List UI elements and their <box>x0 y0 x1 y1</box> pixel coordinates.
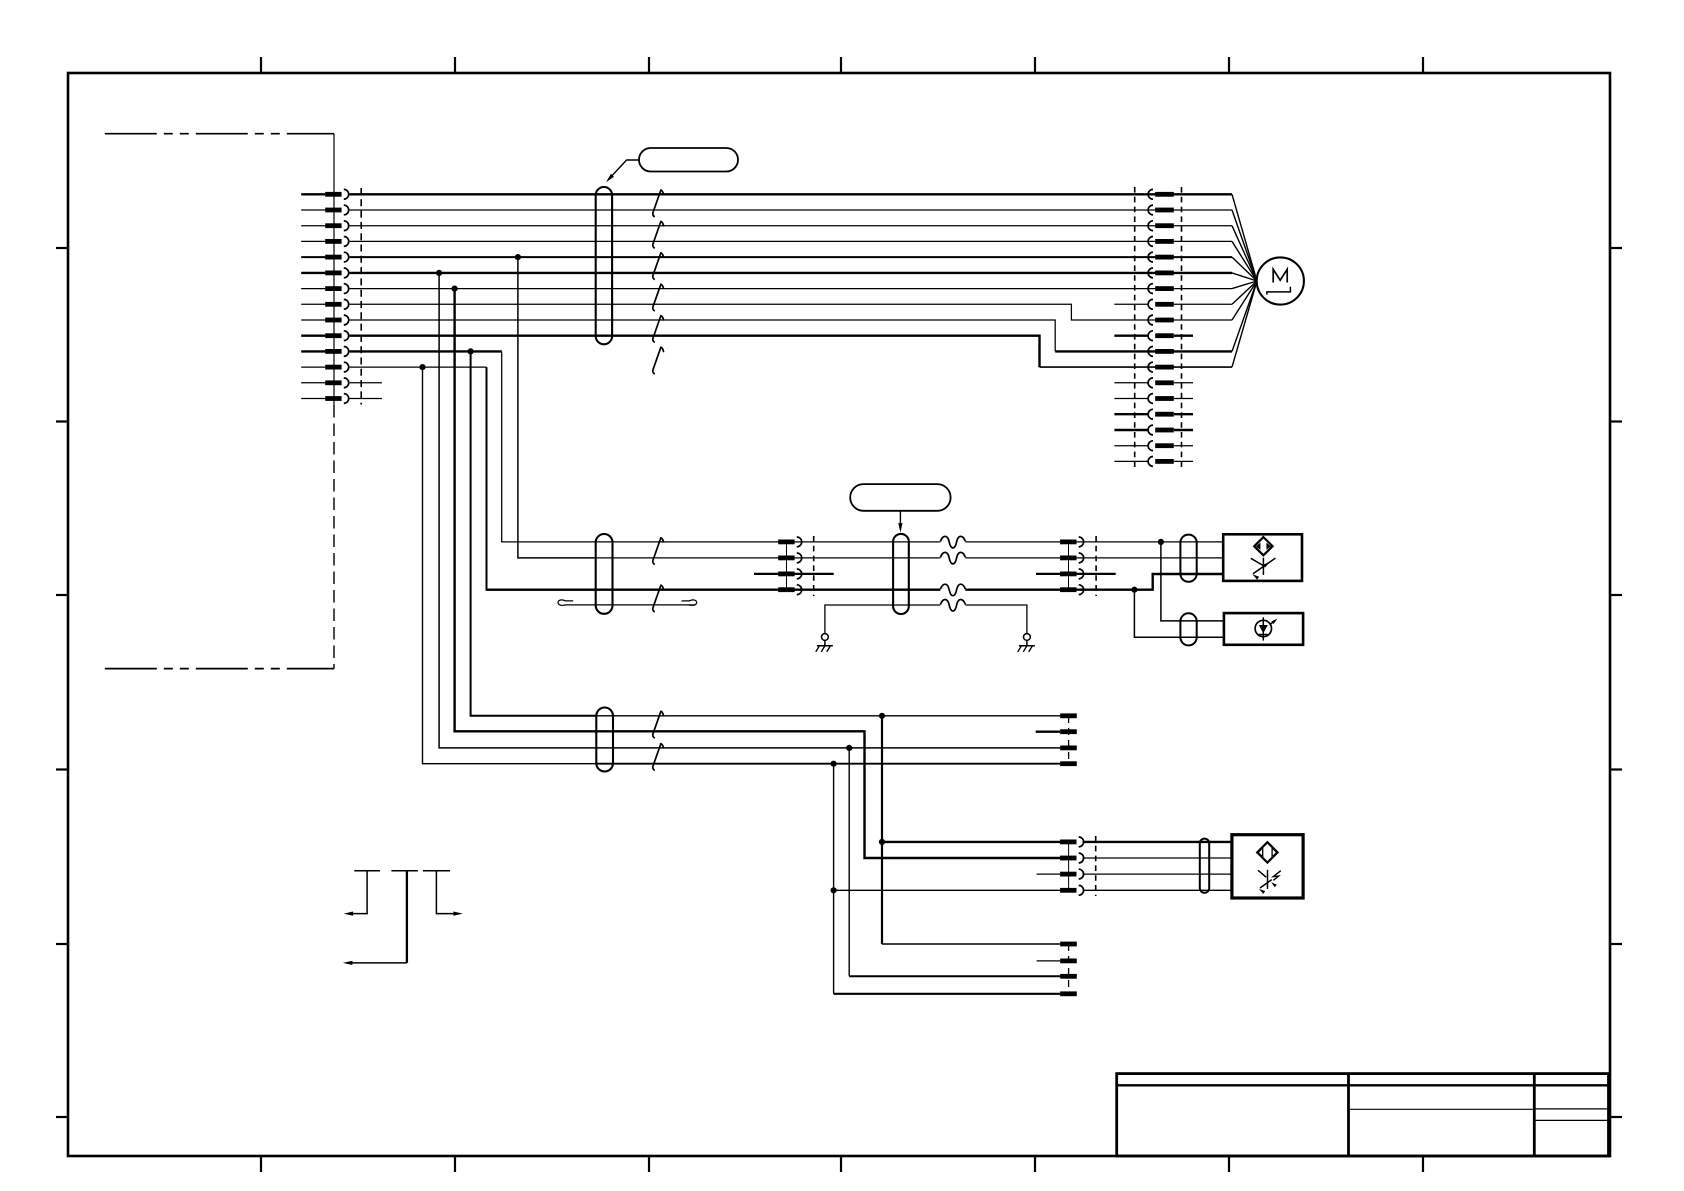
ferrite core sensor2 <box>1180 613 1196 645</box>
wire row12 <box>350 366 487 368</box>
terminal V2 stub <box>1037 960 1061 962</box>
wire to sensor2 pin2 <box>1134 590 1224 638</box>
drop wire to B4 <box>423 367 597 764</box>
frame fold ticks left <box>56 247 68 249</box>
sensor3 beam + flash symbol <box>1267 870 1269 889</box>
title block right column rows <box>1534 1108 1608 1110</box>
shield drain wire with hooks <box>566 604 695 606</box>
CN1 pin 3 <box>301 225 325 227</box>
motor M1 circle <box>1257 257 1304 304</box>
ferrite core sensor3 <box>1200 839 1209 893</box>
wire row8 steps down to CN2 pin9 <box>350 304 1148 320</box>
wires CN5 to sensor3 <box>1083 841 1232 843</box>
wire row10 steps down to CN2 pin12 <box>350 336 1040 367</box>
CN2 pin 15 <box>1148 409 1153 419</box>
wire row7 <box>350 288 1232 290</box>
junction dot M4 <box>1131 587 1137 593</box>
wire M2 <box>596 557 941 559</box>
CN5 pin3 stub <box>1037 873 1061 875</box>
junction dot W4 <box>831 887 837 893</box>
CN2 pin 10 <box>1148 331 1153 341</box>
junction dot B1 <box>879 713 885 719</box>
earth ground left <box>822 634 829 641</box>
branch B1 down to sensor3 and lower terminals <box>881 716 883 944</box>
junction dot B4 <box>831 761 837 767</box>
sensor1 beam arrows symbol <box>1262 558 1264 575</box>
junction dot row7 <box>452 286 458 292</box>
CN2 pin 6 <box>1148 268 1153 278</box>
wire row6 <box>350 272 1232 274</box>
wire row5 <box>350 256 1232 258</box>
wire row11 <box>350 350 502 352</box>
CN5 pin 2 <box>1060 856 1076 861</box>
CN2 pin 17 stubs <box>1114 445 1148 447</box>
shield capsule (middle cable, sensor side) <box>893 534 909 614</box>
CN5 pin 3 <box>1060 872 1076 877</box>
sensor1 diamond symbol <box>1254 537 1272 555</box>
CN1 pin 13 <box>301 382 325 384</box>
CN3 pin 3 <box>778 572 794 577</box>
CN1 pin 12 <box>301 366 325 368</box>
terminal V3 <box>1060 974 1077 979</box>
interruption squiggles middle cable <box>940 536 965 548</box>
CN1 pin 7 <box>301 288 325 290</box>
CN1 pin 4 <box>301 240 325 242</box>
CN1 pin 8 <box>301 303 325 305</box>
CN2 pin 13 <box>1148 378 1153 388</box>
CN5 dashed line <box>1095 836 1097 896</box>
drop wire to B3 <box>439 273 596 748</box>
off-page arrow 3 <box>423 870 450 872</box>
CN4 shield through-bar <box>1036 573 1116 575</box>
CN2 pin 14 <box>1148 394 1153 404</box>
junction dot B3 <box>846 745 852 751</box>
connector CN1 dashed cable-side line <box>360 188 362 405</box>
device boundary right edge upper (solid) <box>333 134 335 405</box>
sensor box 1 (photoelectric) <box>1223 534 1302 581</box>
CN2 pin 1 <box>1148 189 1153 199</box>
CN2 pin 16 stubs <box>1114 429 1148 431</box>
CN4 pin 4 <box>1060 587 1076 592</box>
junction dot M1 <box>1158 539 1164 545</box>
motor underline bracket <box>1267 287 1291 295</box>
off-page arrow 2 <box>391 870 418 872</box>
CN2 pin8 stub and motor wire <box>1114 303 1148 305</box>
CN3 pin 4 <box>778 587 794 592</box>
CN2 pin 5 <box>1148 252 1153 262</box>
conductor-count slashes (top cable) <box>653 190 664 217</box>
device boundary bottom edge <box>105 668 334 670</box>
ground bus of middle cable shield <box>825 605 941 634</box>
CN1 pin14 stub right <box>350 398 382 400</box>
earth ground right <box>1024 634 1031 641</box>
CN2 pin 14 stubs <box>1114 398 1148 400</box>
CN2 pin 18 <box>1148 457 1153 467</box>
wire row4 <box>350 240 1232 242</box>
frame fold ticks top <box>260 57 262 73</box>
CN2 pin10 stubs <box>1114 335 1148 337</box>
terminal T4 <box>1060 761 1077 766</box>
junction dot W1 <box>879 839 885 845</box>
drop wire to M4 <box>487 367 596 590</box>
junction dot row6 <box>436 270 442 276</box>
CN1 pin 1 <box>301 193 325 195</box>
wire row3 <box>350 225 1232 227</box>
wire W1 thick to sensor3 connector <box>882 841 1060 843</box>
drop wire to B2 (thick) <box>455 289 597 732</box>
terminal pins group T <box>1068 716 1070 764</box>
sensor box 3 (laser sensor) <box>1232 835 1303 898</box>
title block middle column divider <box>1349 1108 1535 1110</box>
CN1 pin 11 <box>301 350 325 352</box>
CN1 body line <box>333 188 335 405</box>
ferrite core sensor1 <box>1180 535 1196 582</box>
connector CN3 (4 pins) <box>786 542 788 590</box>
CN2 pin 11 <box>1148 347 1153 357</box>
drop wire to B1 (thick) <box>471 351 597 715</box>
sensor2 LED symbol <box>1255 620 1271 636</box>
junction dot row11 <box>468 348 474 354</box>
frame fold ticks right <box>1610 247 1622 249</box>
CN1 pin13 stub right <box>350 382 382 384</box>
slashes bottom cable <box>653 711 664 738</box>
CN1 pin 2 <box>301 209 325 211</box>
device boundary phantom box top edge <box>105 133 334 135</box>
wire B3 <box>596 747 1060 749</box>
CN2 pin 7 <box>1148 284 1153 294</box>
wire B1 <box>596 715 1060 717</box>
CN2 pin 13 stubs <box>1114 382 1148 384</box>
terminal T3 <box>1060 746 1077 751</box>
sensor box 2 (receiver/LED) <box>1224 613 1303 645</box>
terminal T2 stub <box>1036 731 1061 733</box>
CN4 pin 2 <box>1060 556 1076 561</box>
callout balloon 1 <box>639 148 738 172</box>
drop wire to M1 <box>502 351 596 542</box>
CN2 pin 15 stubs <box>1114 413 1148 415</box>
CN2 pin 12 <box>1148 362 1153 372</box>
wire M1 <box>596 541 941 543</box>
CN1 pin 5 <box>301 256 325 258</box>
device boundary right edge lower (dashed) <box>333 405 335 669</box>
terminal T1 <box>1060 713 1077 718</box>
CN3 shield through-bar <box>754 573 834 575</box>
CN2 dashed line right <box>1181 187 1183 470</box>
CN1 pin 14 <box>301 398 325 400</box>
wire B4 <box>596 763 1060 765</box>
CN5 pin 1 <box>1060 840 1076 845</box>
terminal V1 <box>1060 942 1077 947</box>
connector CN5 (sensor3, 4 pins) <box>1068 842 1070 891</box>
CN1 pin 9 <box>301 319 325 321</box>
terminal T2 <box>1060 729 1077 734</box>
connector CN4 (4 pins) <box>1068 542 1070 590</box>
wire row9 steps down to CN2 pin11 <box>350 320 1056 351</box>
junction dot row12 <box>419 364 425 370</box>
CN2 pin 2 <box>1148 205 1153 215</box>
junction dot row5 <box>515 254 521 260</box>
sensor3 diamond symbol <box>1257 842 1277 862</box>
wire row1 CN1.1 to CN2.1 <box>350 193 1232 195</box>
wire to sensor2 pin1 <box>1161 542 1224 621</box>
CN5 pin 4 <box>1060 888 1076 893</box>
CN4 pin 3 <box>1060 572 1076 577</box>
CN2 pin 3 <box>1148 221 1153 231</box>
frame fold ticks bottom <box>260 1156 262 1172</box>
cable shield capsule (top cable) <box>596 187 612 344</box>
callout 1 leader with arrow <box>609 160 639 179</box>
CN2 pin 17 <box>1148 441 1153 451</box>
motor letter M <box>1273 269 1287 282</box>
terminal V4 <box>1060 991 1077 996</box>
branch B3 down <box>848 748 850 976</box>
CN3 pin 1 <box>778 540 794 545</box>
callout 2 leader with arrow <box>899 511 901 530</box>
CN2 pin 9 <box>1148 315 1153 325</box>
CN3 dashed line <box>813 536 815 596</box>
CN1 pin 6 <box>301 272 325 274</box>
wire row2 <box>350 209 1232 211</box>
CN2 pin 4 <box>1148 237 1153 247</box>
CN1 pin 10 <box>301 335 325 337</box>
CN4 dashed line <box>1095 536 1097 596</box>
shield capsule (middle cable, connector side) <box>596 534 613 614</box>
CN2 pin 8 <box>1148 299 1153 309</box>
wire M4 thick with step up into sensor box <box>487 589 941 591</box>
CN2 dashed line left <box>1134 187 1136 470</box>
CN4 pin 1 <box>1060 540 1076 545</box>
CN2 pin 16 <box>1148 425 1153 435</box>
slashes middle cable <box>653 538 664 565</box>
branch B4 down <box>833 764 835 994</box>
terminal pins group V <box>1068 944 1070 994</box>
CN2 pin 18 stubs <box>1114 460 1148 462</box>
title block <box>1117 1074 1609 1156</box>
wire B2 thick <box>596 731 1060 858</box>
shield capsule (bottom cable) <box>596 708 613 772</box>
drop wire to M2 <box>518 257 596 558</box>
callout balloon 2 <box>850 484 950 511</box>
CN3 pin 2 <box>778 556 794 561</box>
off-page arrow 1 <box>354 870 380 872</box>
terminal V2 <box>1060 959 1077 964</box>
